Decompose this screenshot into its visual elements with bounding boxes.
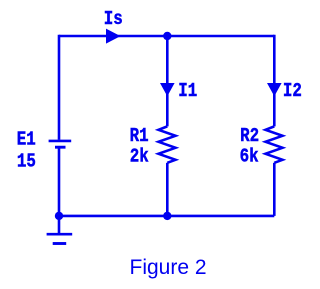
wire bottom horizontal — [59, 215, 274, 218]
svg-text:R2: R2 — [240, 126, 259, 148]
ground bar short — [53, 242, 66, 245]
wire middle vertical lower (R1 bottom lead) — [166, 163, 169, 216]
svg-text:E1: E1 — [17, 129, 36, 151]
arrow I2 (down-pointing on R2 branch) — [267, 83, 282, 96]
junction dot top (node between R1 and top wire) — [163, 32, 171, 40]
svg-text:Figure 2: Figure 2 — [130, 256, 207, 279]
svg-text:6k: 6k — [240, 146, 259, 168]
battery E1 bottom plate (short) — [55, 146, 66, 149]
svg-text:Is: Is — [104, 9, 123, 31]
svg-text:I1: I1 — [178, 81, 197, 103]
resistor R2 zigzag — [266, 126, 283, 162]
wire left vertical upper (E1 top lead) — [58, 35, 61, 140]
svg-text:I2: I2 — [283, 81, 302, 103]
arrow Is (right-pointing on top wire) — [106, 29, 121, 44]
ground bar long — [47, 233, 73, 236]
wire left vertical lower (E1 bottom lead) — [58, 147, 61, 233]
resistor R1 zigzag — [159, 126, 176, 162]
junction dot bottom middle — [163, 212, 171, 220]
svg-text:2k: 2k — [130, 146, 149, 168]
wire right vertical upper (R2 top lead) — [273, 35, 276, 127]
wire top horizontal — [59, 35, 274, 38]
wire middle vertical upper (R1 top lead) — [166, 36, 169, 126]
junction dot bottom left (ground node) — [55, 212, 63, 220]
arrow I1 (down-pointing on R1 branch) — [160, 83, 175, 96]
battery E1 top plate (long) — [49, 140, 72, 143]
wire right vertical lower (R2 bottom lead) — [273, 163, 276, 216]
svg-text:R1: R1 — [130, 126, 149, 148]
svg-text:15: 15 — [17, 151, 36, 173]
